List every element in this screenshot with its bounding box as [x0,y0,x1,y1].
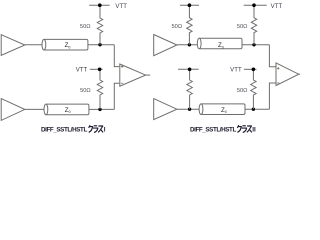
VTT rail bottom left [90,68,103,70]
wire U6 output stub [299,73,300,75]
caption right katakana ku [237,125,241,132]
wire U4 output to node C [177,44,198,46]
transmission line Z0 T1 [42,39,88,50]
driver U4 (right top buffer) [154,35,177,56]
wire U1 output to T1 [25,44,42,46]
VTT rail right top receiver side [244,4,267,6]
resistor R6 50 ohm [251,69,256,109]
svg-text:I: I [104,127,106,134]
VTT rail right top driver side [180,4,199,6]
receiver U3 (left comparator) [120,64,146,86]
caption left katakana ra [93,126,98,133]
pin - mark U3 [121,82,124,84]
VTT junction dot [98,3,102,7]
svg-text:50Ω: 50Ω [237,24,248,30]
VTT rail right bottom receiver side [244,68,257,70]
svg-text:50Ω: 50Ω [237,88,248,94]
wire T3 to node D [242,44,269,46]
node F junction dot [252,108,255,111]
driver U5 (right bottom buffer) [154,99,177,120]
node B junction dot [98,108,101,111]
caption left katakana su [98,126,103,132]
VTT rail right bottom driver side [178,68,199,70]
wire U3 output stub [146,74,151,76]
wire corner node A to receiver + input [114,45,119,67]
driver U1 (left top buffer) [1,35,25,56]
node D junction dot [252,43,255,46]
svg-text:50Ω: 50Ω [80,24,91,30]
resistor R2 50 ohm [97,69,102,109]
VTT junction dot [252,68,256,72]
svg-text:50Ω: 50Ω [80,88,91,94]
VTT junction dot [252,3,256,7]
wire T1 to node A [88,44,114,46]
svg-text:II: II [252,127,256,134]
wire corner node F to receiver - input [269,83,275,109]
VTT rail top left [89,4,109,6]
svg-text:VTT: VTT [271,4,283,10]
pin + mark U3 [121,65,124,68]
VTT junction dot [188,3,192,7]
wire T2 to node B [89,108,114,110]
wire U2 output to T2 [25,108,44,110]
resistor R4 50 ohm [251,5,256,45]
resistor R1 50 ohm [97,6,102,45]
VTT junction dot [98,68,102,72]
wire corner node B to receiver - input [114,83,119,109]
resistor R5 50 ohm [187,69,192,109]
caption left katakana ku [89,125,93,132]
driver U2 (left bottom buffer) [1,99,25,121]
VTT junction dot [188,68,192,72]
wire corner node D to receiver + input [269,45,275,67]
svg-text:VTT: VTT [230,68,242,74]
pin - mark U6 [277,82,280,84]
svg-text:VTT: VTT [76,68,88,74]
transmission line Z0 T2 [44,104,89,115]
transmission line Z0 T4 [199,104,245,115]
transmission line Z0 T3 [197,38,242,49]
wire T4 to node F [245,108,269,110]
svg-text:DIFF_SSTL/HSTL: DIFF_SSTL/HSTL [190,127,236,134]
receiver U6 (right comparator) [276,63,299,86]
svg-text:DIFF_SSTL/HSTL: DIFF_SSTL/HSTL [41,127,87,134]
caption right katakana ra [242,126,247,133]
node E junction dot [188,108,191,111]
wire U5 output to node E [177,108,199,110]
caption right katakana su [247,126,252,132]
svg-text:VTT: VTT [115,4,127,10]
node A junction dot [98,43,101,46]
node C junction dot [188,43,191,46]
svg-text:50Ω: 50Ω [172,24,183,30]
pin + mark U6 [277,67,280,70]
resistor R3 50 ohm [187,5,192,45]
